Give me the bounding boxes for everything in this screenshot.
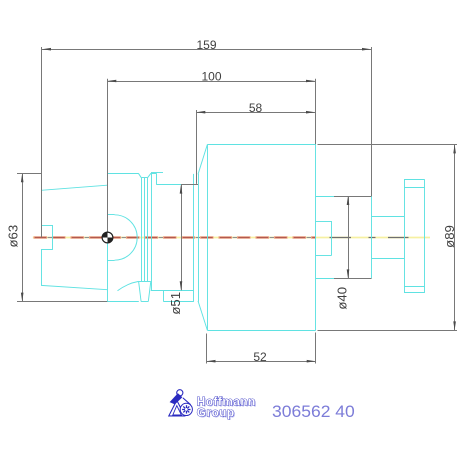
svg-text:ø51: ø51 (168, 292, 183, 315)
centerline dashes (34, 236, 317, 238)
logo text Hoffmann Group (197, 394, 257, 420)
svg-text:ø89: ø89 (442, 225, 457, 248)
svg-text:159: 159 (196, 38, 216, 52)
part outline: neck and cone (151, 144, 207, 330)
dimension 100 (107, 70, 315, 238)
logo icon (169, 390, 193, 416)
centerline (33, 237, 430, 239)
svg-text:52: 52 (253, 350, 267, 364)
flange half-circle bulge (107, 215, 137, 261)
centroid symbol (102, 232, 113, 243)
dimension o51 (168, 185, 198, 315)
svg-text:100: 100 (201, 70, 221, 84)
part number 306562 40 (272, 403, 355, 421)
svg-text:306562 40: 306562 40 (272, 403, 355, 421)
svg-text:ø63: ø63 (6, 225, 21, 248)
dimension o89 (318, 144, 458, 330)
dimension o63 (6, 173, 108, 301)
svg-text:58: 58 (249, 101, 263, 115)
svg-text:Group: Group (197, 406, 235, 420)
part outline: HSK shank taper (41, 185, 107, 290)
socket hole on right face (316, 221, 332, 256)
centerline gray dashes (330, 237, 409, 239)
svg-text:ø40: ø40 (335, 287, 350, 310)
flange gripper slot detail (bottom) (118, 281, 194, 301)
part outline: big cylinder (208, 144, 316, 330)
dimension 52 (207, 333, 316, 364)
part outline: flange (107, 173, 156, 301)
part outline: o40 section (316, 196, 372, 279)
dimension 58 (196, 101, 315, 184)
dimension o40 (334, 196, 372, 310)
dimension 159 (42, 38, 372, 237)
part outline: disc (404, 180, 425, 293)
part outline: stub (372, 217, 405, 259)
